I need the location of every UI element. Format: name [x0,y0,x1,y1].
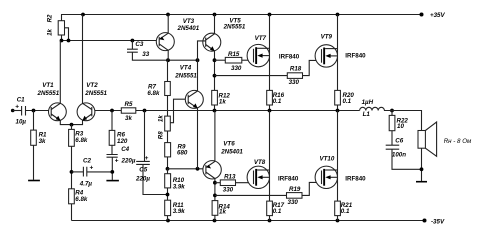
resistor R6 120 [109,111,128,155]
svg-text:3k: 3k [39,138,46,145]
wire VT2 collector to +35V [82,15,84,104]
svg-text:3k: 3k [125,115,132,122]
ground (speaker) [416,181,427,183]
resistor R11 3.9k [165,200,186,220]
wire bias line to VT6 base [168,168,204,170]
svg-text:R19: R19 [289,186,301,193]
svg-text:VT9: VT9 [321,34,333,41]
svg-text:0.1: 0.1 [341,208,350,215]
resistor R20 0.1 [335,90,355,110]
resistor R3 6.8k [69,129,88,188]
node: VT6 collector / R13 [213,181,217,185]
resistor R16 0.1 [267,90,285,110]
node A: C1/R1/VT1 base junction [32,109,36,113]
node: R10/R11/C5 junction [166,193,170,197]
resistor R14 1k [212,201,230,221]
svg-text:0.1: 0.1 [273,98,282,105]
node: R3/R4/C2 junction [70,170,74,174]
wire emitters to R3 [71,125,73,130]
MOSFET VT8 IRF840 [247,111,299,202]
node: C2/C4 ground junction [110,170,114,174]
svg-text:IRF840: IRF840 [279,54,300,61]
svg-text:1k: 1k [158,115,165,122]
svg-text:1k: 1k [219,208,226,215]
svg-text:R13: R13 [224,173,236,180]
svg-text:VT7: VT7 [255,35,267,42]
-35V rail [72,219,445,226]
svg-text:3.9k: 3.9k [173,208,186,215]
svg-text:2N5551: 2N5551 [84,90,107,97]
svg-text:C2: C2 [83,157,91,164]
resistor R18 330 [215,60,322,86]
node: output line / R20 / VT10 [336,109,340,113]
MOSFET VT10 IRF840 [315,111,366,202]
resistor R21 0.1 [335,201,353,220]
svg-text:1k: 1k [219,99,226,106]
svg-text:R5: R5 [125,101,133,108]
svg-text:+: + [145,155,149,162]
svg-text:3.9k: 3.9k [173,183,186,190]
svg-text:C5: C5 [139,166,147,173]
svg-text:+: + [90,165,94,172]
speaker Rn 8 Ohm [418,122,472,181]
resistor R22 10 [389,111,408,146]
node: R5 right / C5 top (output feedback tap) [143,109,147,113]
wire input to C1 [13,110,22,112]
node: R9/R10 junction (bias line) [166,167,170,171]
svg-text:330: 330 [289,79,300,86]
svg-text:VT1: VT1 [42,82,54,89]
wire output to speaker [384,111,422,131]
capacitor C5 220u (bootstrap) [135,111,168,195]
svg-text:+35V: +35V [430,12,445,19]
node: VT5 emitter / R15 [213,58,217,62]
svg-text:R15: R15 [228,51,240,58]
capacitor C6 100n [386,138,422,170]
svg-text:10µ: 10µ [16,119,27,126]
bias chain: resistor R7 6.8k [147,60,170,116]
svg-text:4.7µ: 4.7µ [79,181,93,188]
svg-text:6.8k: 6.8k [75,137,88,144]
node: VT6 collector / R19 line [213,194,217,198]
svg-text:C3: C3 [135,41,143,48]
node: common emitters VT1/VT2 [70,123,74,127]
svg-text:6.8k: 6.8k [75,196,88,203]
resistor R12 1k [212,90,231,110]
ground (R1) [28,180,40,182]
inductor L1 1uH [360,99,385,118]
resistor R9 680 [165,143,188,169]
wire VT1 collector [59,41,61,104]
trimmer R2 1k [47,14,69,41]
svg-text:2N5551: 2N5551 [223,24,246,31]
svg-text:IRF840: IRF840 [278,176,299,183]
svg-text:C1: C1 [17,97,25,104]
svg-text:1k: 1k [47,28,54,35]
svg-text:33: 33 [142,51,149,58]
svg-text:2N5551: 2N5551 [174,73,197,80]
svg-text:0.1: 0.1 [343,98,352,105]
svg-text:R18: R18 [290,65,302,72]
svg-text:VT4: VT4 [180,65,192,72]
svg-text:2N5401: 2N5401 [220,149,243,156]
svg-text:2N5401: 2N5401 [177,25,200,32]
svg-text:+: + [15,104,19,111]
transistor VT1 2N5551 [37,82,72,125]
transistor VT3 2N5401 [156,15,199,61]
svg-text:C6: C6 [395,138,403,145]
wire VT1 collector node to VT3 base (y=40.5) [60,39,157,43]
svg-text:C4: C4 [121,146,129,153]
svg-text:L1: L1 [363,111,371,118]
transistor VT2 2N5551 (mirrored) [72,82,122,125]
resistor R19 330 [215,182,322,206]
svg-text:R2: R2 [47,14,54,22]
node: VT2 base / R6 / R5 [110,109,114,113]
svg-text:Rн - 8 Ом: Rн - 8 Ом [444,138,472,145]
svg-text:6.8k: 6.8k [147,90,160,97]
capacitor C2 4.7u [72,157,113,187]
node: Zobel tap [390,109,394,113]
svg-text:0.1: 0.1 [273,208,282,215]
node: VAS line dots [166,58,170,62]
svg-text:1µH: 1µH [362,99,374,106]
resistor R13 330 [215,173,254,193]
MOSFET VT9 IRF840 [315,15,366,91]
resistor R4 6.8k [69,189,88,221]
svg-text:VT6: VT6 [223,141,235,148]
svg-text:120: 120 [117,138,128,145]
capacitor C3 33 [127,41,198,61]
svg-text:+: + [115,158,119,165]
svg-text:IRF840: IRF840 [345,176,366,183]
+35V rail [61,12,445,19]
transistor VT5 2N5551 [198,15,246,91]
svg-text:IRF840: IRF840 [345,52,366,59]
transistor VT6 2N5401 [203,111,244,201]
ground (C4/C2) [106,180,119,182]
input terminal [11,109,15,113]
svg-text:330: 330 [223,186,234,193]
svg-text:VT8: VT8 [254,159,266,166]
MOSFET VT7 IRF840 [247,15,300,91]
node: R12/VT6 emitter on output line [213,109,217,113]
svg-text:330: 330 [231,65,242,72]
svg-text:VT10: VT10 [320,156,335,163]
transistor VT4 2N5551 (Vbe multiplier) [174,60,203,169]
resistor R17 0.1 [267,201,285,220]
resistor R1 3k [31,111,47,180]
svg-text:10: 10 [397,123,404,130]
svg-text:220µ: 220µ [135,175,150,182]
resistor R15 330 [215,51,254,72]
svg-text:VT2: VT2 [86,82,98,89]
node: output line / R16 / VT8 [268,109,272,113]
svg-text:2N5551: 2N5551 [37,90,60,97]
svg-text:220µ: 220µ [121,158,136,165]
svg-text:-35V: -35V [431,219,445,226]
svg-text:680: 680 [177,150,188,157]
resistor R10 3.9k [165,169,186,200]
resistor R5 3k [121,101,359,122]
svg-text:330: 330 [288,199,299,206]
trimmer R8 1k [158,99,186,142]
capacitor C1 10u [15,97,48,126]
svg-text:R8: R8 [158,131,165,139]
node: VT5 emitter / R18 line [213,74,217,78]
capacitor C4 220u [107,146,136,180]
svg-text:100n: 100n [392,152,406,159]
node: speaker/C6 ground junction [420,167,424,171]
